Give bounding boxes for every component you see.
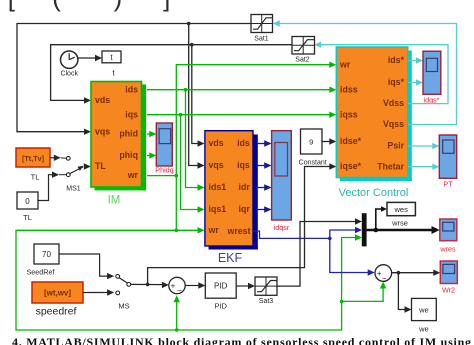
svg-text:MS: MS [118, 302, 129, 311]
wire IM wr (speed feedback net) [147, 175, 176, 177]
svg-text:iqs1: iqs1 [209, 204, 227, 214]
block 0 (zero torque constant) [17, 192, 38, 222]
wire Constant to VC idse* [322, 141, 330, 143]
wire VC Vqss to Sat1 [278, 24, 457, 125]
svg-text:TL: TL [23, 213, 32, 222]
svg-text:vqs: vqs [209, 160, 224, 170]
scope wres [439, 219, 456, 254]
wire wr up to VC wr [176, 65, 331, 176]
svg-text:Thetar: Thetar [377, 161, 404, 171]
clock block [60, 51, 78, 78]
wire W2: Sat2 output to IM vds [51, 45, 292, 101]
cropped equation brackets (top) [8, 0, 171, 12]
svg-text:iqss: iqss [340, 109, 358, 119]
wire VC iqs* to scope idqs* [408, 82, 418, 84]
svg-text:speedref: speedref [36, 306, 77, 318]
node mux output branch [374, 228, 379, 233]
wire IM phid to Phidq scope [147, 133, 151, 135]
svg-text:vds: vds [95, 95, 110, 105]
svg-text:wr: wr [208, 225, 220, 235]
block [wt,wv] (speedref) [32, 282, 83, 318]
wire W2 branch to EKF vds [192, 45, 199, 144]
wire sum1 to PID [185, 285, 199, 287]
svg-text:−: − [177, 286, 182, 295]
wire VC Vdss to Sat2 [320, 45, 449, 104]
switch MS pole [119, 278, 127, 283]
block EKF (extended Kalman filter) [205, 131, 258, 265]
block Sat3 (saturation) [255, 277, 277, 305]
wire PID to Sat3 [236, 285, 249, 287]
node wr loop to sum2 [340, 300, 344, 304]
svg-text:Psir: Psir [387, 141, 404, 151]
wire sum2 to Wr2 scope [392, 272, 435, 274]
svg-text:IM: IM [108, 195, 121, 207]
svg-text:Vqss: Vqss [383, 119, 404, 129]
wire speed command to VC iqse* [148, 167, 331, 285]
wire VC Psir to scope PT [408, 145, 434, 147]
wire IM phiq to Phidq scope [147, 155, 151, 157]
svg-text:idss: idss [340, 84, 358, 94]
svg-text:wres: wres [439, 245, 456, 254]
svg-text:iqs: iqs [237, 160, 250, 170]
wire W1 branch to EKF vqs [189, 24, 199, 166]
wire VC Thetar to scope PT [408, 166, 434, 168]
wire wrest up to mux input 2 [330, 230, 357, 238]
wire branch up to wes [376, 209, 382, 230]
svg-text:phid: phid [119, 129, 138, 139]
svg-text:vqs: vqs [95, 126, 110, 136]
svg-text:idqsr: idqsr [274, 223, 290, 232]
svg-text:phiq: phiq [119, 150, 138, 160]
svg-text:PID: PID [214, 302, 227, 311]
wire EKF wrest (estimated speed, blue net) [253, 231, 330, 238]
node sum2 output branch [397, 271, 401, 275]
scope idqs* [423, 51, 441, 104]
svg-text:we: we [418, 325, 429, 334]
svg-text:9: 9 [309, 137, 313, 146]
svg-text:[wt,wv]: [wt,wv] [44, 289, 71, 298]
scope idqsr [272, 131, 292, 232]
wire wrest down to sum2 plus [330, 238, 369, 272]
svg-text:SeedRef: SeedRef [27, 268, 55, 277]
svg-text:ids1: ids1 [209, 182, 227, 192]
wire [Tt,Tv] to MS1 top [50, 157, 56, 159]
wire mux output to wres scope (vector line) [367, 229, 432, 232]
svg-text:Wr2: Wr2 [442, 286, 455, 295]
svg-text:ids: ids [125, 84, 138, 94]
node wrest [328, 237, 332, 241]
wire wr loop up into sum1 minus [176, 301, 178, 330]
svg-text:Clock: Clock [60, 71, 78, 78]
mux [362, 213, 367, 246]
svg-text:vds: vds [209, 138, 224, 148]
node wr-EKF [175, 229, 179, 233]
svg-text:Constant: Constant [299, 160, 327, 167]
node ids branch [184, 88, 188, 92]
scope Wr2 [440, 261, 457, 295]
wire IM ids to VC idss [147, 89, 331, 91]
svg-text:]: ] [163, 0, 170, 12]
svg-text:[: [ [8, 0, 16, 12]
svg-text:t: t [112, 69, 115, 78]
svg-text:iqs: iqs [125, 109, 138, 119]
wire wr down [175, 176, 177, 231]
node speed command branch [146, 283, 150, 287]
block Sat2 (saturation) [292, 37, 315, 64]
node on W2 branching to EKF vds [190, 43, 194, 47]
block wes (to workspace) [387, 202, 415, 215]
svg-text:idr: idr [239, 182, 251, 192]
node MS bottom terminal [116, 291, 120, 295]
switch MS1 pole [70, 167, 83, 174]
wire iqs branch to EKF iqs1 [181, 115, 199, 210]
block t (to workspace) [102, 51, 121, 78]
block Constant 9 [299, 129, 327, 167]
svg-text:PT: PT [443, 180, 453, 189]
svg-text:[Tt,Tv]: [Tt,Tv] [22, 154, 44, 163]
svg-text:4. MATLAB/SIMULINK block diagr: 4. MATLAB/SIMULINK block diagram of sens… [12, 335, 471, 345]
svg-text:we: we [418, 306, 429, 315]
svg-text:ids*: ids* [388, 55, 405, 65]
svg-text:Sat1: Sat1 [254, 36, 269, 43]
wire 70 to MS top [59, 254, 109, 276]
node MS1 bottom terminal [66, 173, 70, 177]
svg-text:TL: TL [31, 173, 40, 182]
svg-text:ids: ids [237, 138, 250, 148]
svg-text:): ) [114, 0, 123, 12]
scope Phidq [155, 123, 173, 175]
wire wr feedback loop to bottom [16, 230, 357, 330]
svg-text:(: ( [52, 0, 61, 12]
node wr loop to sum1 [175, 328, 179, 332]
svg-text:Vdss: Vdss [383, 98, 404, 108]
svg-text:Sat3: Sat3 [259, 298, 274, 305]
svg-text:wr: wr [339, 60, 351, 70]
node MS1 top terminal [66, 156, 70, 160]
svg-text:PID: PID [214, 282, 228, 291]
svg-text:iqr: iqr [239, 204, 251, 214]
svg-text:TL: TL [95, 161, 106, 171]
block 70 (SeedRef) [27, 244, 59, 277]
wire speedref to MS bottom [83, 292, 109, 294]
svg-text:wrest: wrest [227, 226, 251, 236]
svg-text:wrse: wrse [391, 218, 408, 227]
svg-text:wes: wes [394, 205, 409, 214]
wire clock to t [78, 57, 97, 59]
wire branch down to we [398, 273, 405, 310]
wire 0 to MS1 bottom [38, 175, 54, 201]
wire MS1 to IM TL [84, 163, 91, 169]
svg-text:MS1: MS1 [66, 186, 81, 193]
wire W1: Sat1 output to IM vqs [17, 24, 251, 132]
block IM (induction motor) [91, 82, 146, 207]
svg-text:+: + [171, 282, 176, 291]
sum junction sum2 [375, 265, 392, 284]
wires EKF ids,iqs,idr,iqr to idqsr scope [258, 144, 266, 210]
block Sat1 (saturation) [251, 15, 273, 43]
svg-text:iqs*: iqs* [388, 77, 405, 87]
block we (to workspace) [412, 298, 437, 333]
svg-text:70: 70 [42, 250, 51, 259]
scope PT [439, 135, 456, 189]
svg-text:Sat2: Sat2 [295, 57, 310, 64]
wire VC ids* to scope idqs* [408, 60, 418, 62]
block PID controller [205, 273, 236, 311]
wire Sat3 to mux input 1 [277, 222, 357, 287]
node iqs branch [179, 113, 183, 117]
block Vector Control [336, 47, 412, 199]
svg-text:wr: wr [127, 170, 139, 180]
wire MS to sum1 [131, 283, 164, 285]
wire wr to EKF wr input [176, 229, 198, 231]
svg-text:0: 0 [25, 197, 30, 206]
node wr [175, 174, 179, 178]
svg-text:−: − [382, 274, 387, 283]
wire wr loop to sum2 minus [342, 287, 384, 301]
node MS top terminal [116, 275, 120, 279]
node on W1 branching to EKF vqs [187, 22, 191, 26]
svg-text:Phidq: Phidq [155, 166, 173, 175]
svg-text:idse*: idse* [340, 136, 362, 146]
svg-text:EKF: EKF [218, 251, 243, 265]
svg-text:iqse*: iqse* [340, 161, 362, 171]
wire IM iqs to VC iqss [147, 114, 331, 116]
wire ids branch to EKF ids1 [186, 90, 199, 188]
svg-text:Vector Control: Vector Control [339, 187, 409, 199]
sum junction sum1 [169, 277, 185, 295]
node MS output terminal [127, 283, 131, 287]
block [Tt,Tv] (torque source) [16, 148, 50, 182]
